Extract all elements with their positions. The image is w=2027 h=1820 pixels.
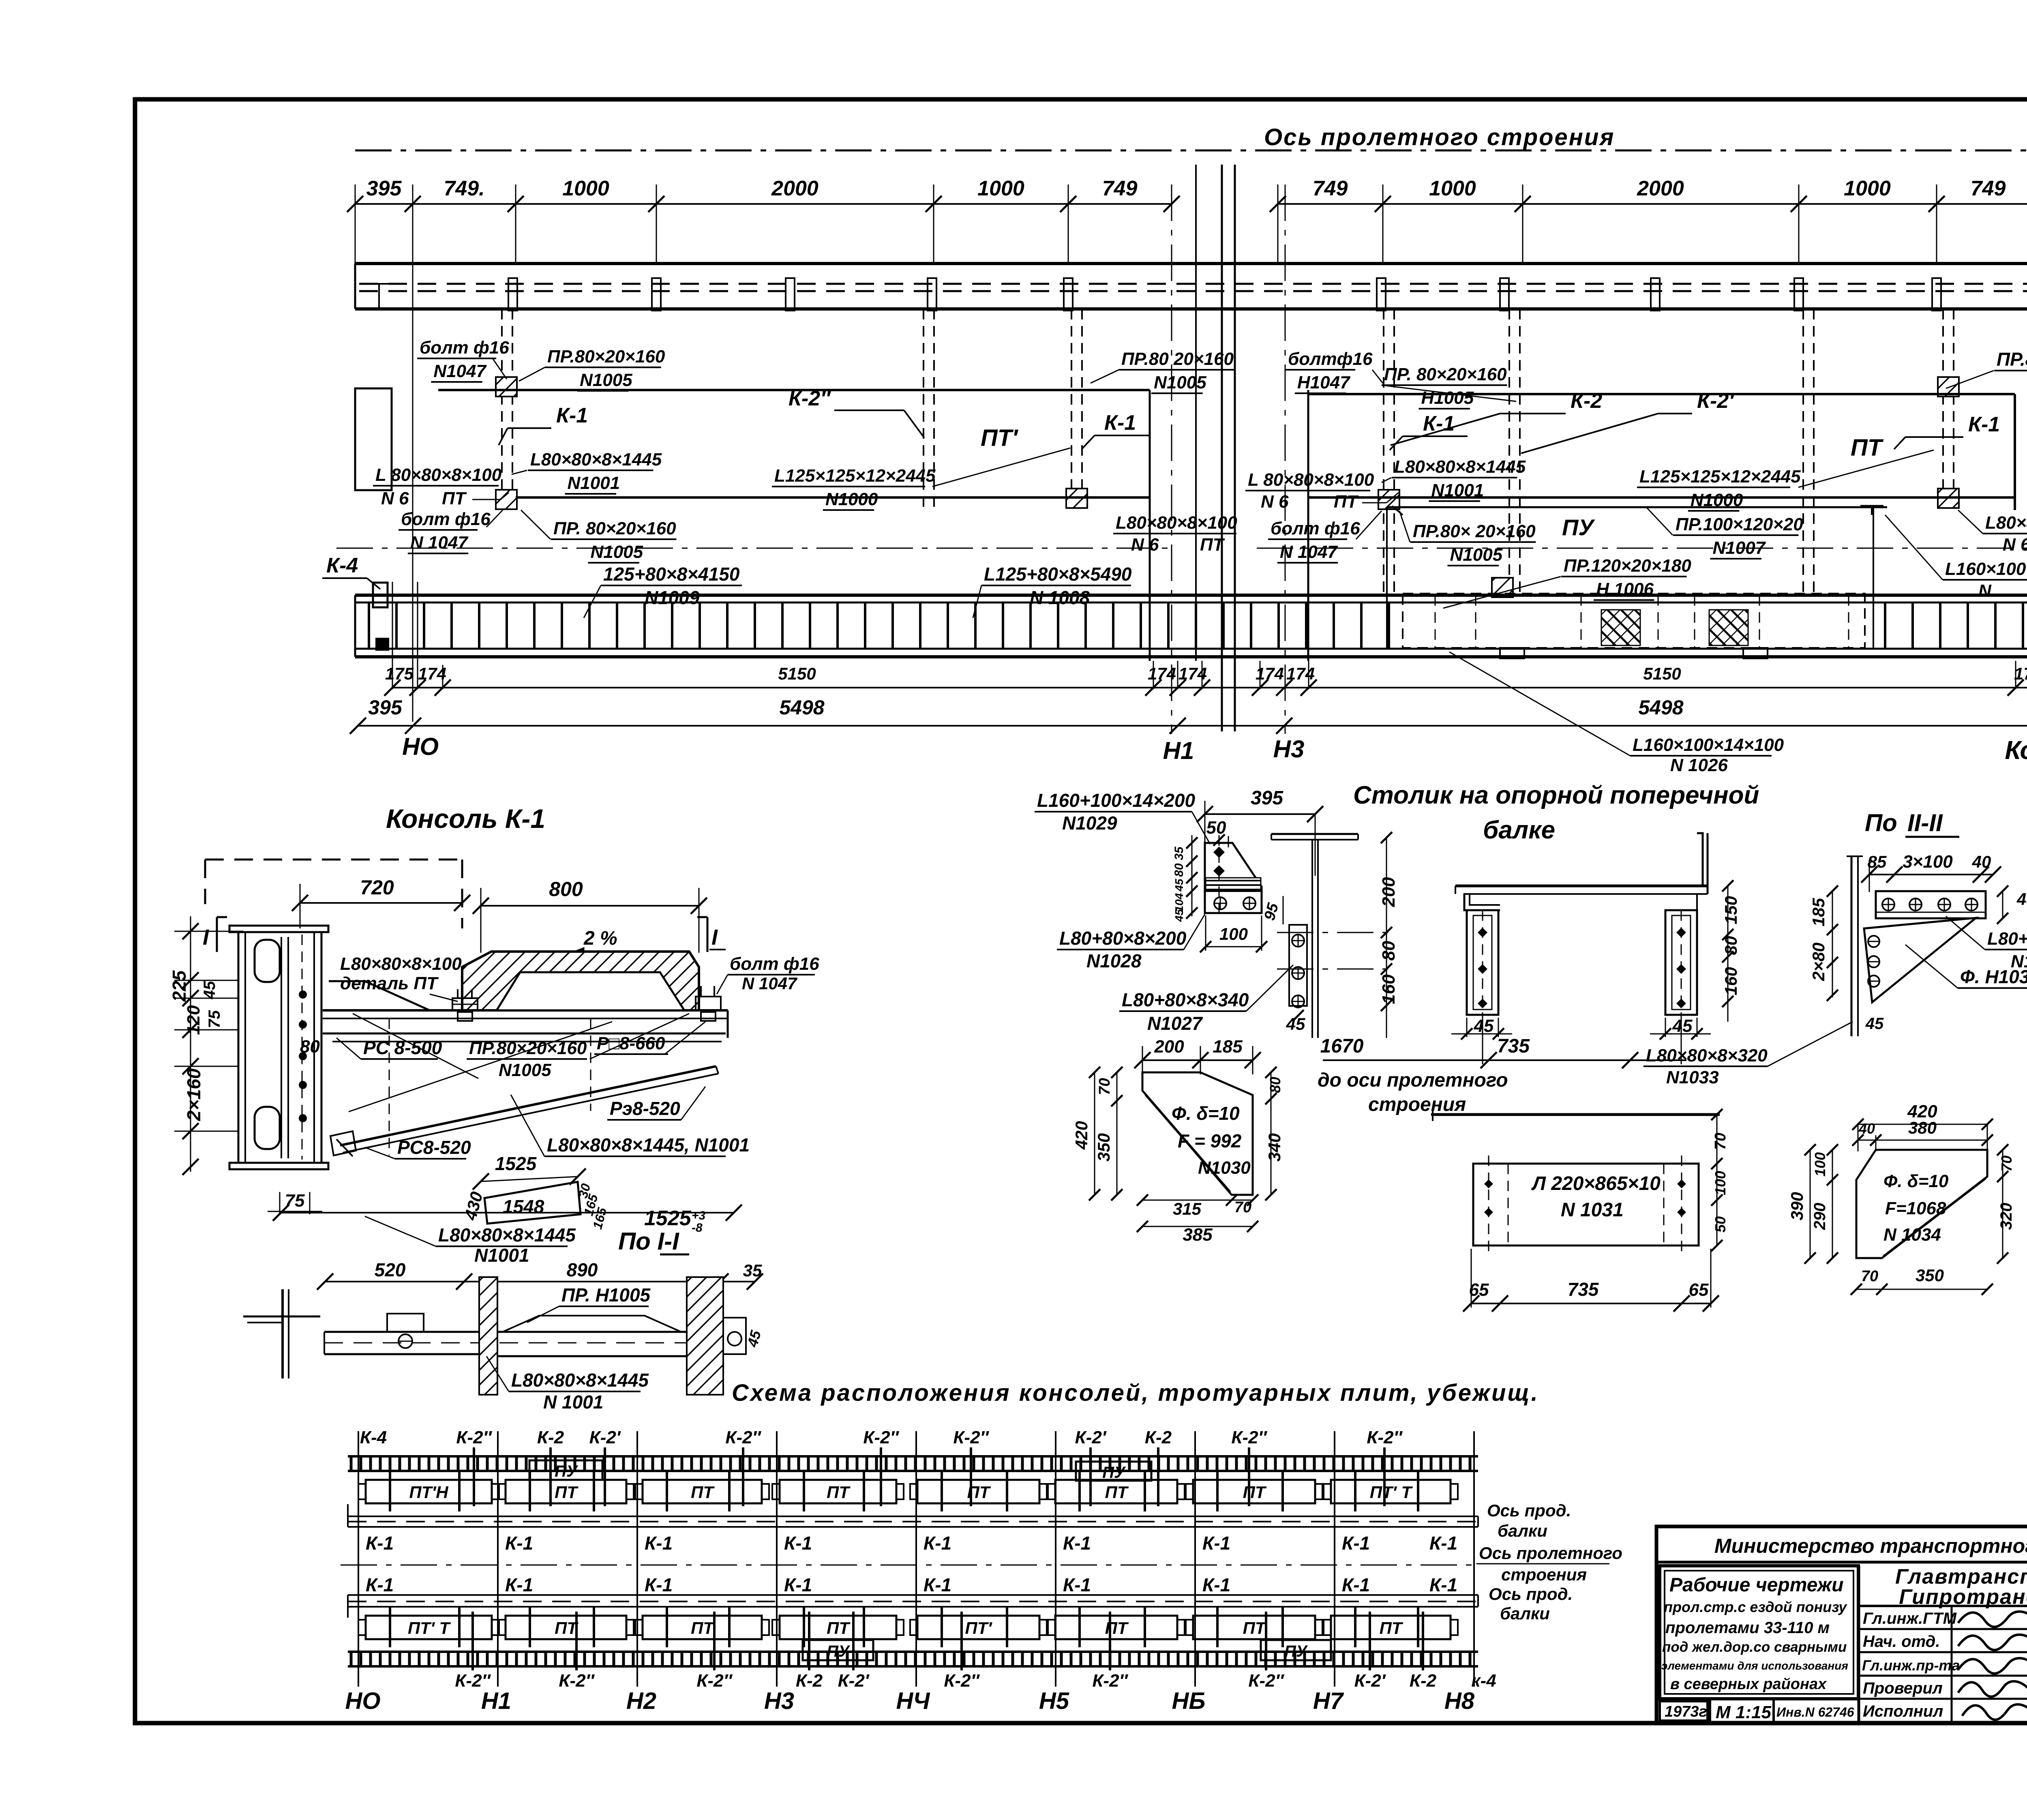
svg-text:80: 80 (1172, 863, 1186, 877)
brace lower foot plate (330, 1131, 356, 1155)
svg-text:деталь ПТ: деталь ПТ (340, 973, 439, 993)
bottom view plate Л220х865х10 (1473, 1155, 1699, 1257)
svg-text:Н3: Н3 (764, 1688, 794, 1714)
scheme node labels H0..H8 (345, 1688, 1475, 1714)
dim 2x160 (rotated) (183, 1068, 204, 1121)
svg-text:ПУ: ПУ (1102, 1464, 1126, 1481)
bottom row: year / scale / inventory (1656, 1699, 1859, 1723)
svg-text:N 1031: N 1031 (1561, 1199, 1624, 1221)
label: ПР.80х20х160 / N1005 (2) (521, 510, 676, 563)
scheme plate row 2 (358, 1608, 1458, 1647)
dim 45 right of plate (1997, 885, 2027, 924)
dim 45 at triangle bottom (1865, 1015, 1884, 1033)
svg-text:строения: строения (1368, 1094, 1466, 1115)
svg-text:N1005: N1005 (1154, 373, 1206, 392)
svg-text:К-1: К-1 (366, 1574, 394, 1595)
svg-text:L80×80×8×100: L80×80×8×100 (1985, 513, 2027, 533)
svg-text:L80×80×8×1445: L80×80×8×1445 (1394, 457, 1526, 477)
svg-text:Н 1006: Н 1006 (1596, 579, 1654, 599)
svg-text:L 80×80×8×100: L 80×80×8×100 (375, 465, 502, 485)
extension lines of top dimensions (355, 184, 2027, 722)
rail band top lines (355, 595, 2027, 602)
svg-text:К-2″: К-2″ (456, 1428, 492, 1447)
svg-text:5150: 5150 (778, 664, 816, 683)
dim 95 (rotated) (1261, 896, 1283, 924)
K-4 end block (373, 583, 388, 650)
svg-text:ПТ: ПТ (967, 1483, 991, 1502)
scheme top console labels (360, 1428, 1403, 1447)
label: L80+80х8х380 / N1033 (1946, 916, 2027, 971)
horizontal bolt plate (1876, 891, 1986, 918)
console K-2" strip (right) (1803, 309, 1814, 594)
scheme center dash-dot axis (341, 1565, 1480, 1566)
left bar of I-I (324, 1332, 478, 1354)
labels of 5498 row (368, 696, 1684, 719)
svg-text:N 1047: N 1047 (410, 533, 469, 553)
svg-text:ПТ: ПТ (1334, 492, 1359, 512)
svg-text:II-II: II-II (1907, 809, 1943, 836)
svg-text:ПТ′ Т: ПТ′ Т (408, 1618, 451, 1638)
label: болт ф16 / N104 (right) (717, 954, 819, 994)
svg-text:балки: балки (1498, 1521, 1547, 1540)
svg-text:К-2: К-2 (1145, 1428, 1172, 1447)
rail band bottom lines (355, 649, 2027, 657)
scheme top console ticks (474, 1447, 1384, 1506)
svg-text:К-2″: К-2″ (863, 1428, 899, 1447)
svg-text:Консоль К-1: Консоль К-1 (386, 804, 545, 834)
svg-text:К-4: К-4 (360, 1428, 387, 1447)
labels of 5150 row (385, 664, 2027, 683)
svg-text:К-1: К-1 (645, 1574, 673, 1595)
svg-text:К-1: К-1 (505, 1533, 533, 1554)
scheme right axis notes (1476, 1501, 1622, 1623)
svg-text:ПТ: ПТ (555, 1618, 579, 1638)
svg-text:L160×100×14×100: L160×100×14×100 (1945, 559, 2027, 579)
svg-text:800: 800 (549, 878, 583, 900)
dim 100 under bracket (1200, 915, 1267, 952)
svg-text:ПР.100×120×20: ПР.100×120×20 (1676, 514, 1803, 534)
dim 1525 over wedge (473, 1153, 586, 1190)
svg-text:К-2″: К-2″ (1092, 1671, 1128, 1691)
svg-text:395: 395 (366, 177, 402, 200)
PU shelter dashed outline (1403, 594, 1865, 648)
label: L80х80х8х100 / N6 ПТ (center) (1245, 470, 1399, 512)
svg-text:735: 735 (1497, 1035, 1530, 1057)
vertical cut trace (dashed) (389, 1018, 591, 1155)
svg-text:Н1: Н1 (1163, 737, 1194, 764)
PU box bottom 2 (1261, 1640, 1331, 1660)
svg-text:749: 749 (1971, 177, 2006, 200)
svg-text:L80×80×8×320: L80×80×8×320 (1646, 1046, 1768, 1065)
svg-text:174: 174 (1178, 664, 1207, 683)
dim 75 bottom (268, 1191, 322, 1214)
svg-text:К-2: К-2 (537, 1428, 564, 1447)
svg-text:К-1: К-1 (556, 404, 588, 427)
svg-text:290: 290 (1811, 1203, 1829, 1230)
svg-text:N1001: N1001 (1431, 480, 1484, 500)
svg-text:185: 185 (1809, 898, 1828, 926)
svg-text:70: 70 (1234, 1199, 1251, 1216)
bottom dimension 1525±3 (273, 1205, 742, 1235)
gusset N1030 top dims 200/185 (1134, 1037, 1261, 1074)
svg-text:1000: 1000 (1429, 177, 1476, 200)
svg-text:до оси пролетного: до оси пролетного (1318, 1070, 1508, 1091)
svg-text:45: 45 (1173, 879, 1185, 892)
svg-text:N1033: N1033 (1666, 1068, 1719, 1087)
svg-text:65: 65 (1689, 1280, 1709, 1300)
svg-text:L80×80×8×1445: L80×80×8×1445 (438, 1224, 576, 1245)
center dashed axis of I-I (324, 1342, 726, 1344)
svg-text:N 1008: N 1008 (1030, 587, 1090, 608)
label: болт ф16 / N1047 (1) (417, 338, 509, 382)
svg-text:80: 80 (1267, 1077, 1283, 1093)
label: К-2" with leader (789, 387, 924, 438)
svg-text:ПТ: ПТ (1851, 435, 1884, 461)
svg-text:К-1: К-1 (645, 1533, 673, 1554)
svg-text:К-1: К-1 (924, 1533, 951, 1554)
node label H1 (1163, 737, 1194, 764)
svg-text:К-2′: К-2′ (1075, 1428, 1107, 1447)
svg-text:395: 395 (1251, 787, 1283, 809)
stolik front: left bolt plate (1467, 910, 1498, 1022)
svg-text:70: 70 (1998, 1155, 2015, 1172)
svg-text:225: 225 (169, 970, 190, 1002)
svg-text:ПР. 80×20×160: ПР. 80×20×160 (1384, 364, 1507, 384)
label: болт ф16 / N 1047 (4) (1268, 511, 1382, 563)
svg-text:735: 735 (1568, 1279, 1599, 1300)
PU box top 2 (1076, 1462, 1151, 1481)
dim 45 under stem plate (1286, 1010, 1305, 1033)
dimension labels (top row) (366, 177, 2006, 200)
PU dashed inner partitions (1435, 595, 1849, 648)
label: L125+80х8х5490 / N1008 (973, 564, 1132, 618)
label: L125х125х12х2445 / N1000 (2) (1637, 450, 1934, 511)
svg-text:40: 40 (1858, 1120, 1875, 1137)
svg-text:1000: 1000 (562, 177, 609, 200)
svg-text:-8: -8 (692, 1221, 703, 1235)
label 1548 in wedge (503, 1196, 544, 1217)
hatched wall (right) (687, 1277, 723, 1395)
svg-text:N 1034: N 1034 (1883, 1225, 1941, 1245)
dimension line (5150 row) (384, 680, 2027, 696)
svg-text:L80×80×8×1445: L80×80×8×1445 (511, 1370, 649, 1391)
PU bottom tabs (1500, 648, 1768, 658)
svg-text:80: 80 (1379, 941, 1399, 960)
dim 75 (rotated) (206, 1010, 223, 1028)
svg-text:2 %: 2 % (583, 928, 617, 949)
svg-text:I: I (711, 925, 718, 950)
diagonal brace (double line) (336, 1066, 718, 1156)
plate band PT' bottom edge (left half) (516, 496, 1150, 499)
weld access hole (top) (255, 940, 280, 982)
extension verticals for 5150 row (392, 582, 2016, 689)
console K-2' strip (1509, 309, 1520, 594)
svg-text:L80+80×8×380: L80+80×8×380 (1987, 929, 2027, 949)
right dim chain of T (200/80/160) (1379, 832, 1399, 1038)
svg-text:N1001: N1001 (474, 1245, 529, 1266)
svg-text:2×160: 2×160 (183, 1068, 204, 1121)
middle table signatures (1958, 1612, 2027, 1720)
rail band end posts (355, 595, 2027, 657)
svg-text:L80×80×8×1445: L80×80×8×1445 (530, 450, 662, 469)
svg-text:45: 45 (2016, 890, 2027, 909)
svg-text:5498: 5498 (1638, 696, 1683, 719)
label: L125х125х12х2445 / N1000 (1) (772, 448, 1070, 510)
svg-text:ПР.80 20×160: ПР.80 20×160 (1121, 349, 1234, 369)
bolt assembly on plate (right) (696, 986, 721, 1021)
svg-text:к-4: к-4 (1471, 1671, 1496, 1691)
svg-text:75: 75 (206, 1010, 223, 1028)
svg-text:80: 80 (1721, 936, 1740, 955)
left project box (1660, 1566, 1858, 1699)
svg-text:К-1: К-1 (1342, 1574, 1370, 1595)
left dim chain 185 / 2x80 (1809, 885, 1838, 1001)
plate band PT top edge (right half) (1308, 393, 2015, 395)
gusset N1030 bottom dims (1137, 1194, 1258, 1245)
gusset N1034 left dims (1787, 1144, 1838, 1264)
slope mark 2% (569, 928, 649, 959)
svg-text:болт ф16: болт ф16 (420, 338, 509, 358)
svg-text:1000: 1000 (1844, 177, 1891, 200)
label: L80x80x8x1445 / N1001 (bottom) (486, 1356, 649, 1413)
gusset plate N1034 (1856, 1150, 1987, 1258)
column top cap plate (229, 926, 328, 932)
svg-text:ПТ: ПТ (1200, 535, 1225, 555)
section mark I (left) (203, 917, 227, 952)
label: К-1 (4) (1894, 413, 2000, 449)
bolt assembly on plate (left) (452, 989, 478, 1021)
svg-text:N 1047: N 1047 (742, 974, 797, 993)
svg-text:N 6: N 6 (1131, 535, 1159, 555)
svg-text:L80+80×8×200: L80+80×8×200 (1059, 928, 1187, 949)
title block: Главтранспроект / Гипротрансмост (1895, 1565, 2027, 1609)
middle bar of I-I (497, 1332, 687, 1356)
svg-text:ПТ: ПТ (691, 1618, 715, 1638)
label: ПР.80х20х160 / N 1005 (right) (1946, 349, 2027, 394)
svg-text:200: 200 (1379, 877, 1399, 907)
label: ПР.80|20х160 / N1005 (2b) (1091, 349, 1235, 393)
label: L160+100х14х200 / N1029 (1035, 790, 1210, 844)
left vertical dimension chain (174, 916, 243, 1175)
bottom view bottom dims 65/735/65 (1463, 1249, 1719, 1312)
label: ПР.100х120х20 / N1007 (1646, 507, 1803, 559)
scheme upper band lines (348, 1504, 1478, 1527)
svg-text:+3: +3 (692, 1209, 706, 1222)
svg-text:N1027: N1027 (1147, 1013, 1203, 1034)
label: L80х80х8х100 / N6 ПТ (right) (1958, 510, 2027, 555)
svg-text:174: 174 (1148, 664, 1176, 683)
title block outer box (1656, 1526, 2027, 1723)
svg-text:НО: НО (402, 733, 439, 760)
svg-text:ПТ: ПТ (1243, 1483, 1267, 1502)
column bottom cap plate (229, 1163, 328, 1169)
svg-text:Ось пролетного строения: Ось пролетного строения (1264, 124, 1615, 150)
svg-text:балки: балки (1500, 1604, 1550, 1623)
console K-2 strip (1384, 309, 1394, 594)
svg-text:Инв.N 62746: Инв.N 62746 (1776, 1705, 1854, 1719)
title: Консоль К-4 (2005, 735, 2027, 765)
svg-text:L160×100×14×100: L160×100×14×100 (1633, 735, 1784, 755)
svg-text:Исполнил: Исполнил (1863, 1702, 1943, 1720)
svg-text:К-2″: К-2″ (944, 1671, 980, 1691)
svg-text:395: 395 (368, 696, 403, 719)
bracket bolts (filled) (1213, 835, 1225, 916)
label: РС8-520 (365, 1137, 471, 1159)
svg-text:L 80×80×8×100: L 80×80×8×100 (1248, 470, 1374, 490)
svg-text:420: 420 (1072, 1121, 1091, 1150)
scheme lower band lines (348, 1595, 1478, 1618)
svg-text:Ось прод.: Ось прод. (1487, 1501, 1571, 1520)
svg-text:ПТ: ПТ (442, 489, 467, 508)
dim 120 (rotated) (184, 1005, 204, 1035)
dim 45 (rotated) (201, 981, 219, 999)
svg-text:N1005: N1005 (1450, 545, 1503, 565)
label: L160х100х14х100 / N ПУ (1885, 515, 2027, 601)
label: болт ф16 / N1047 (2) (399, 509, 503, 553)
cross-hatched bearing square 1 (1601, 610, 1640, 645)
girder end verticals at break (1150, 390, 1308, 661)
svg-text:5498: 5498 (779, 696, 824, 719)
label: L80х80х8х320 / N1033 (left) (1643, 1022, 1853, 1087)
label: ПР.80х20х160 / N1005 (detail) (467, 1014, 689, 1080)
svg-text:350: 350 (1094, 1133, 1113, 1162)
svg-text:N1000: N1000 (1691, 490, 1743, 510)
svg-text:L80×80×8×1445, N1001: L80×80×8×1445, N1001 (547, 1134, 750, 1155)
svg-text:150: 150 (1721, 896, 1740, 924)
column web dashed line (302, 935, 303, 1160)
hanger stubs on beam (508, 278, 1941, 311)
bracket: gusset with hatch and bolts (1205, 843, 1262, 913)
dimension line (top row) (347, 196, 2027, 212)
svg-text:К-1: К-1 (505, 1574, 533, 1595)
svg-text:К-1: К-1 (1202, 1533, 1230, 1554)
svg-text:50: 50 (1712, 1216, 1729, 1233)
svg-text:N1009: N1009 (645, 587, 700, 608)
svg-text:ПТ: ПТ (827, 1618, 851, 1638)
svg-text:К-2′: К-2′ (589, 1428, 621, 1447)
svg-text:45: 45 (201, 981, 219, 999)
label: ПР. 80х20х160 / Н1005 (3) (1382, 364, 1516, 409)
svg-text:ПУ: ПУ (1562, 514, 1595, 540)
label: ПТ' (981, 425, 1018, 451)
gusset triangle with bolts (1864, 918, 1976, 1002)
svg-text:К-1: К-1 (784, 1533, 812, 1554)
svg-text:К-1: К-1 (1968, 413, 2000, 436)
svg-text:К-1: К-1 (366, 1533, 394, 1554)
svg-text:К-2″: К-2″ (696, 1671, 733, 1691)
svg-text:45: 45 (1865, 1015, 1884, 1033)
svg-text:100: 100 (1712, 1171, 1729, 1195)
svg-text:К-2″: К-2″ (1367, 1428, 1403, 1447)
svg-text:ПР. Н1005: ПР. Н1005 (561, 1284, 651, 1306)
svg-text:К-2″: К-2″ (725, 1428, 761, 1447)
bolt block (left) (387, 1314, 424, 1348)
svg-text:К-2: К-2 (1410, 1671, 1437, 1691)
node label H3 (1273, 735, 1305, 763)
svg-text:К-2: К-2 (1571, 389, 1602, 413)
title block: ministry row (1656, 1535, 2027, 1562)
dash-dot levels on T (1277, 933, 1395, 969)
label: L80x80x8x1445 / N1001 (for I-I) (365, 1216, 576, 1266)
brace piece (wedge) (484, 1182, 581, 1224)
svg-text:ПТ: ПТ (1105, 1618, 1129, 1638)
T-beam stem (1312, 840, 1318, 1038)
scheme bottom console labels (455, 1671, 1496, 1691)
svg-text:прол.стр.с ездой понизу: прол.стр.с ездой понизу (1664, 1599, 1847, 1615)
svg-text:под жел.дор.со сварными: под жел.дор.со сварными (1662, 1639, 1847, 1655)
console top plate lines (323, 1010, 728, 1038)
dim 80 (300, 1037, 320, 1057)
svg-text:К-2″: К-2″ (559, 1671, 595, 1691)
svg-text:РС8-520: РС8-520 (397, 1137, 471, 1158)
svg-text:К-2″: К-2″ (1248, 1671, 1284, 1691)
middle table grid (1859, 1562, 2027, 1723)
svg-text:К-1: К-1 (1104, 411, 1136, 435)
svg-text:1525: 1525 (495, 1153, 537, 1174)
svg-text:N 1026: N 1026 (1670, 755, 1728, 775)
svg-text:174: 174 (1286, 664, 1315, 683)
label: L80x80x8x100 / деталь ПТ (340, 954, 462, 1001)
svg-text:N1005: N1005 (580, 370, 632, 390)
svg-text:N 1001: N 1001 (543, 1391, 603, 1413)
svg-text:315: 315 (1173, 1199, 1202, 1218)
svg-text:По I-I: По I-I (618, 1228, 679, 1255)
svg-text:N 6: N 6 (1261, 492, 1289, 512)
dim 35 (720, 1261, 763, 1290)
svg-text:ПТ′Н: ПТ′Н (409, 1483, 449, 1502)
column flange lines (238, 931, 321, 1163)
svg-text:К-2″: К-2″ (953, 1428, 989, 1447)
label: К-1 (1) with leader (499, 404, 588, 445)
svg-text:балке: балке (1483, 816, 1555, 844)
svg-text:520: 520 (375, 1259, 406, 1280)
svg-text:К-1: К-1 (784, 1574, 812, 1595)
dim 225 (rotated) (169, 970, 190, 1002)
svg-text:Р□8-660: Р□8-660 (597, 1033, 665, 1053)
label: РС 8-500 (336, 1037, 442, 1059)
label: L160х100х14х100 / N1026 (1449, 652, 1784, 775)
svg-text:N1000: N1000 (825, 489, 878, 509)
dim 45 right plate (1650, 1016, 1711, 1040)
svg-text:К-1: К-1 (1429, 1574, 1457, 1595)
stolik front: left angle profile (1464, 894, 1500, 910)
label: L80х80х8х100 / N6 ПТ (1) (373, 465, 509, 508)
svg-text:L80×80×8×100: L80×80×8×100 (1116, 513, 1237, 533)
svg-text:Гл.инж.ГТМ: Гл.инж.ГТМ (1863, 1610, 1957, 1627)
small dims 30 165 165 (rotated) (575, 1182, 610, 1230)
svg-text:Рабочие чертежи: Рабочие чертежи (1669, 1574, 1843, 1596)
svg-text:Консоль К-4: Консоль К-4 (2005, 735, 2027, 765)
svg-text:N1047: N1047 (433, 361, 487, 381)
label: L80х80х8х100 / N6 ПТ (left lower) (1113, 513, 1237, 555)
gusset N1034 bottom dims (1851, 1266, 1993, 1295)
column bolts (299, 990, 307, 1122)
svg-text:К-1: К-1 (1202, 1574, 1230, 1595)
right dim chain (150/80/160) (1721, 880, 1740, 1022)
svg-text:350: 350 (1916, 1266, 1944, 1285)
svg-text:ПТ: ПТ (1105, 1483, 1129, 1502)
svg-text:65: 65 (1469, 1280, 1489, 1300)
svg-text:40: 40 (1972, 852, 1991, 871)
svg-text:N1001: N1001 (568, 473, 620, 493)
svg-text:К-2″: К-2″ (789, 387, 831, 410)
svg-text:РС 8-500: РС 8-500 (363, 1037, 442, 1058)
console K-1 strip (1st) (502, 309, 512, 510)
svg-text:Н8: Н8 (1444, 1688, 1475, 1714)
svg-text:Гл.инж.пр-та: Гл.инж.пр-та (1862, 1657, 1960, 1674)
dimension 800 (473, 878, 707, 953)
svg-text:75: 75 (285, 1191, 305, 1211)
